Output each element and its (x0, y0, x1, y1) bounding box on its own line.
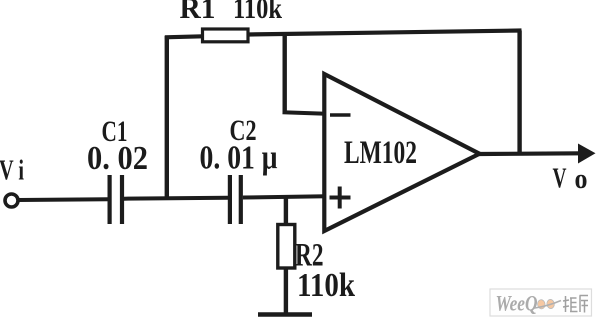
glyph wei (565, 296, 567, 312)
wire: top left segment to R1 (165, 36, 203, 37)
op-amp U1 LM102 (324, 74, 479, 231)
glyph ku (580, 295, 589, 297)
op-amp noninverting pin marker (plus) (330, 187, 351, 209)
resistor R2 (278, 225, 295, 269)
svg-text:o: o (575, 164, 588, 195)
wire: C1 to C2 (124, 198, 228, 199)
op-amp inverting pin marker (minus) (330, 113, 351, 116)
wire: output (479, 151, 581, 156)
svg-text:WeeQ: WeeQ (496, 291, 538, 316)
wire: right vertical feedback to output node (517, 31, 521, 156)
wire: R2 top lead (284, 198, 288, 226)
resistor R1 (203, 29, 249, 42)
wire: inverting branch horizontal to op-amp (283, 112, 327, 114)
svg-text:110k: 110k (297, 267, 355, 304)
svg-text:R1: R1 (180, 0, 216, 25)
wire: R1 to top right corner (248, 31, 522, 35)
capacitor C2 (230, 175, 241, 224)
wire: inverting branch vertical drop (283, 33, 287, 114)
svg-text:0. 02: 0. 02 (87, 140, 148, 177)
output arrow (578, 144, 596, 164)
svg-text:LM102: LM102 (344, 135, 417, 171)
svg-text:110k: 110k (233, 0, 282, 25)
wire: node A vertical (junction up to R1 left) (165, 36, 169, 199)
svg-text:0. 01 μ: 0. 01 μ (200, 139, 278, 176)
svg-text:V i: V i (0, 156, 24, 187)
watermark (490, 289, 592, 316)
capacitor C1 (110, 175, 122, 224)
wire: R2 bottom lead (284, 268, 288, 314)
ground (258, 312, 312, 317)
input terminal Vi (5, 194, 18, 207)
svg-text:V: V (553, 164, 567, 195)
wire: input terminal to C1 (19, 197, 109, 202)
wire: C2 to noninverting input (243, 196, 326, 197)
